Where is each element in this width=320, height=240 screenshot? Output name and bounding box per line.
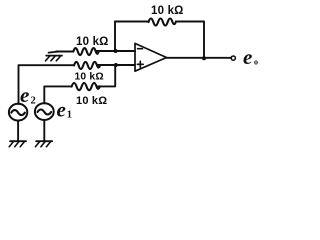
- wire feedback top: [115, 21, 204, 23]
- op-amp minus sign: [138, 48, 143, 50]
- svg-text:1: 1: [67, 110, 72, 121]
- terminal e0 open circle: [231, 56, 235, 60]
- ground e1: [36, 140, 52, 142]
- svg-text:10 kΩ: 10 kΩ: [76, 36, 109, 48]
- wire R1 to inverting input: [96, 50, 135, 52]
- svg-text:o: o: [254, 58, 258, 67]
- wire e1 to ground: [43, 120, 45, 141]
- resistor R4 10k feedback: [149, 19, 177, 26]
- svg-text:e: e: [20, 83, 29, 107]
- svg-text:e: e: [243, 45, 252, 69]
- svg-text:10 kΩ: 10 kΩ: [75, 72, 104, 83]
- wire output: [167, 57, 232, 59]
- junction node at output: [202, 56, 206, 60]
- wire e1 corner to R3: [44, 86, 71, 103]
- svg-text:10 kΩ: 10 kΩ: [151, 5, 184, 17]
- source e1: [35, 103, 54, 120]
- wire feedback right vertical: [203, 22, 205, 59]
- wire R2 to noninverting input: [97, 64, 135, 66]
- wire feedback left vertical: [114, 22, 116, 52]
- resistor R2 10k: [74, 62, 100, 69]
- svg-text:e: e: [57, 98, 66, 122]
- junction node at noninverting input: [114, 63, 118, 67]
- wire R1 left: [56, 51, 73, 53]
- source e2: [9, 104, 27, 121]
- svg-text:10 kΩ: 10 kΩ: [76, 95, 107, 107]
- op-amp plus sign: [137, 61, 143, 67]
- resistor R1 10k: [73, 48, 99, 55]
- wire R3 up to noninverting node: [98, 65, 116, 86]
- ground chassis left: [46, 52, 62, 56]
- wire e2 to ground: [17, 121, 19, 142]
- op-amp U1: [135, 43, 167, 71]
- wire e2 corner to R2: [19, 65, 75, 104]
- resistor R3 10k: [72, 83, 100, 90]
- svg-text:2: 2: [31, 96, 36, 107]
- ground e2: [10, 140, 26, 142]
- junction node at inverting input: [114, 49, 118, 53]
